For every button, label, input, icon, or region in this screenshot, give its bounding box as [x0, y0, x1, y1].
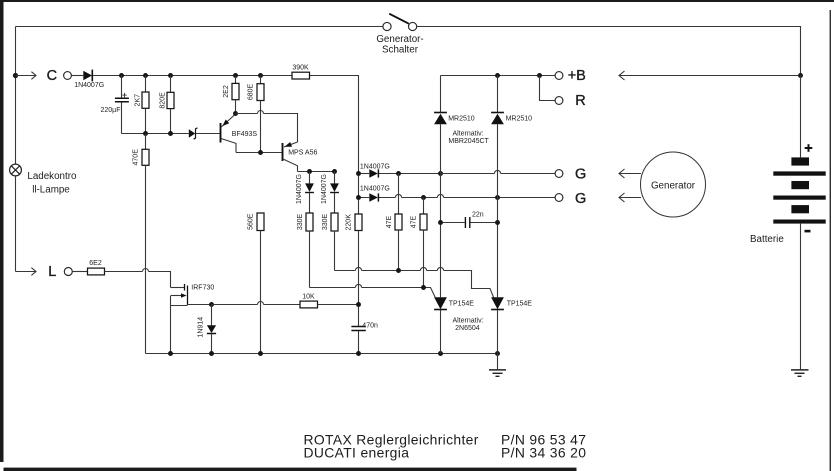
resistor 560E [248, 213, 264, 354]
wire MPS A56 collector row [298, 171, 335, 173]
svg-text:22n: 22n [472, 211, 484, 218]
svg-text:R: R [575, 93, 585, 109]
svg-text:Ladekontro: Ladekontro [27, 171, 77, 182]
junction dots on diode row 2 [356, 195, 361, 200]
arrow generator G2 [619, 197, 641, 199]
node G2 [555, 191, 586, 207]
diode MR2510 (1) [434, 76, 475, 298]
svg-text:+B: +B [568, 68, 586, 84]
resistor 2K7 [135, 76, 149, 134]
diode 1N4007G (C input) [71, 70, 292, 89]
resistor 47E (2) [411, 198, 427, 288]
svg-text:DUCATI energia: DUCATI energia [304, 445, 410, 461]
wire battery to ground [800, 224, 802, 370]
svg-text:Generator: Generator [651, 180, 696, 191]
svg-text:Alternativ:: Alternativ: [452, 131, 483, 138]
svg-text:MR2510: MR2510 [506, 115, 533, 122]
svg-text:TP154E: TP154E [507, 300, 533, 307]
svg-text:G: G [575, 191, 586, 207]
ground below battery [791, 370, 809, 376]
junction dot 2K7 bottom [143, 131, 148, 136]
junction dots on diode row 1 [356, 171, 361, 176]
svg-text:1N4007G: 1N4007G [74, 82, 104, 89]
resistor 680E [248, 76, 264, 153]
wire top rail left of switch [16, 26, 383, 28]
svg-text:P/N 34 36 20: P/N 34 36 20 [501, 445, 586, 461]
resistor 6E2 [72, 260, 104, 275]
svg-text:MR2510: MR2510 [448, 115, 475, 122]
svg-text:390K: 390K [292, 64, 309, 71]
svg-text:L: L [48, 264, 56, 280]
svg-text:1N4007G: 1N4007G [296, 174, 303, 204]
resistor 2E2 [223, 76, 239, 114]
svg-text:6E2: 6E2 [89, 260, 102, 267]
svg-text:330E: 330E [297, 214, 304, 231]
svg-text:ll-Lampe: ll-Lampe [32, 185, 70, 196]
capacitor 220uF [101, 76, 129, 134]
wire top rail right of switch [416, 27, 800, 76]
wire left rail lower [15, 176, 17, 272]
svg-text:470n: 470n [362, 322, 378, 329]
resistor 820E [160, 76, 174, 134]
thyristor TP154E (2) [491, 297, 532, 353]
svg-text:C: C [47, 68, 57, 84]
resistor 330E (1) [297, 213, 313, 288]
arrow to +B from battery [619, 75, 801, 77]
resistor 390K [292, 64, 359, 214]
resistor 220K [346, 214, 362, 326]
resistor 330E (2) [322, 213, 338, 271]
diode 1N914 [197, 305, 216, 354]
node C [13, 68, 72, 84]
wire IRF730 drain row [188, 304, 212, 306]
switch Generator-Schalter [376, 14, 423, 56]
svg-text:2E2: 2E2 [223, 85, 230, 98]
lamp Ladekontroll-Lampe [10, 164, 77, 196]
node L [16, 264, 73, 280]
wire ground row [146, 353, 498, 355]
wire L row to gate [105, 269, 171, 288]
svg-text:330E: 330E [322, 214, 329, 231]
diode 1N4007G horizontal upper [359, 163, 441, 178]
diode 1N4007G vertical 2 [321, 172, 339, 214]
svg-text:2N6504: 2N6504 [455, 325, 480, 332]
wire gate row to TP154E 2 [335, 267, 494, 297]
svg-text:MPS A56: MPS A56 [288, 149, 317, 156]
capacitor 470n [351, 322, 378, 353]
zener diode at BF493S base [189, 128, 220, 139]
wire left rail [15, 27, 17, 165]
transistor IRF730 [171, 284, 215, 354]
svg-text:680E: 680E [248, 84, 255, 101]
capacitor 22n [441, 211, 498, 228]
diode 1N4007G horizontal lower [359, 185, 556, 202]
wire base row [122, 133, 189, 135]
svg-text:Generator-: Generator- [376, 34, 423, 45]
svg-text:MBR2045CT: MBR2045CT [448, 138, 489, 145]
thyristor TP154E (1) [434, 297, 474, 353]
wire G1 line to terminal [441, 170, 556, 173]
svg-text:Alternativ:: Alternativ: [452, 317, 483, 324]
svg-text:220K: 220K [346, 214, 353, 231]
svg-text:47E: 47E [386, 215, 393, 228]
svg-text:10K: 10K [302, 293, 315, 300]
wire +B rail [441, 75, 556, 77]
junction dot 680E bottom [258, 150, 263, 155]
arrow generator G1 [619, 173, 641, 175]
svg-text:G: G [575, 167, 586, 183]
wire gate row to TP154E 1 [310, 284, 436, 297]
svg-text:1N914: 1N914 [197, 317, 204, 338]
svg-text:Batterie: Batterie [750, 234, 784, 245]
resistor 470E [133, 134, 149, 354]
diode MR2510 (2) [491, 76, 532, 298]
svg-text:47E: 47E [411, 215, 418, 228]
svg-text:2K7: 2K7 [135, 94, 142, 107]
wire MPS A56 emitter row [236, 111, 298, 142]
diode 1N4007G vertical 1 [296, 172, 314, 214]
svg-text:820E: 820E [160, 92, 167, 109]
resistor 47E (1) [386, 174, 402, 271]
junction dots on C rail [119, 73, 124, 78]
svg-text:560E: 560E [248, 213, 255, 230]
node G1 [555, 167, 586, 183]
svg-text:470E: 470E [133, 149, 140, 166]
transistor MPS A56 [283, 142, 318, 172]
wire BF493S collector row [236, 152, 282, 154]
svg-text:1N4007G: 1N4007G [360, 163, 390, 170]
svg-text:220µF: 220µF [101, 107, 121, 114]
svg-text:1N4007G: 1N4007G [360, 185, 390, 192]
junction dot 2E2 bottom [233, 111, 238, 116]
node +B [555, 68, 586, 84]
battery Batterie [750, 76, 826, 246]
ground below TP154E [489, 354, 506, 377]
transistor BF493S [221, 114, 258, 153]
svg-text:BF493S: BF493S [232, 131, 258, 138]
svg-text:IRF730: IRF730 [191, 284, 214, 291]
generator [641, 152, 706, 217]
node R [540, 76, 586, 110]
junction dot 820E bottom [168, 131, 173, 136]
svg-text:1N4007G: 1N4007G [321, 174, 328, 204]
svg-text:TP154E: TP154E [449, 300, 475, 307]
resistor 10K [212, 293, 359, 308]
svg-text:Schalter: Schalter [382, 45, 419, 56]
